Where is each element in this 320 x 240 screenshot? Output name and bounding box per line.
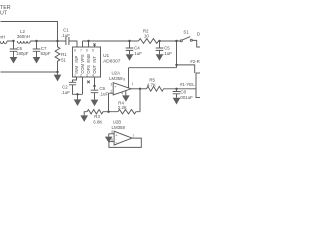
ground (U2B pin 5) [105,134,113,143]
svg-text:4: 4 [92,73,94,77]
power rail to op-amps [129,65,195,73]
switch S1 [180,37,192,42]
label U2A [109,71,123,82]
svg-text:+: + [114,84,117,89]
op-amp U2B [114,131,132,145]
svg-text:1: 1 [132,82,134,86]
ground (R1) [54,72,62,81]
svg-text:2.2K: 2.2K [118,105,127,110]
svg-text:C2: C2 [62,84,68,89]
label #2 wire [190,59,200,64]
junction dot (feedback tap) [139,88,141,90]
svg-text:0nH: 0nH [0,34,5,39]
label C4 [133,46,142,57]
svg-text:S1: S1 [183,29,189,34]
junction dot (feedback node) [107,111,109,113]
svg-text:C1: C1 [63,28,69,33]
pin 4 stub (OUT) [94,77,96,86]
label U1 [103,53,121,65]
svg-text:3: 3 [111,82,113,86]
label #1 wire [180,82,195,87]
svg-text:6: 6 [86,48,88,52]
svg-text:.1uF: .1uF [61,90,70,95]
pin name OUT [92,64,97,73]
svg-text:U1: U1 [103,53,109,59]
label C1 [61,28,70,38]
pin name OFS [86,65,91,74]
node B junction dot [35,40,37,42]
svg-text:5: 5 [92,48,94,52]
pin 4 label [121,91,123,95]
pin numbers bottom row [74,73,94,77]
junction dot (OUT node) [93,85,95,87]
connector J1 (clipped at right edge) [196,73,204,98]
ground (U2A pin 4) [122,90,130,101]
capacitor C4 [126,41,134,61]
svg-text:COM: COM [80,63,85,73]
resistor R2 [139,39,159,44]
label U2B [112,120,126,131]
supply wire row (pin7 to switch) [83,40,181,42]
inductor L2 [17,41,30,43]
wire: top input rail from left edge, down to node C [1,22,58,42]
label C8 [179,89,193,100]
svg-text:C8: C8 [180,89,186,94]
pin 3 label [111,82,113,86]
label C7 [41,46,51,56]
label C6 [16,46,29,56]
svg-text:51: 51 [61,57,66,62]
svg-text:360nH: 360nH [17,34,30,39]
svg-text:#2-R: #2-R [190,59,200,64]
pin 2 label [111,90,113,94]
resistor R1 (vertical termination) [55,41,60,72]
svg-text:4.7K: 4.7K [147,83,156,88]
label R3 [93,114,102,124]
svg-text:.1uF: .1uF [163,51,172,56]
resistor R5 [147,86,197,91]
svg-text:8: 8 [74,48,76,52]
node A junction dot [12,40,14,42]
DC connector fragment (clipped at right edge) [192,31,203,47]
svg-text:C4: C4 [134,46,140,51]
svg-text:OUT: OUT [92,64,97,73]
wire: riser to op-amp supply rail [176,41,178,68]
svg-text:U2A: U2A [112,71,121,76]
label R5 [147,77,156,87]
svg-text:2: 2 [80,73,82,77]
svg-text:180pF: 180pF [16,51,29,56]
junction dot pin 6 [87,40,89,42]
wire output row [131,88,147,90]
svg-text:VPS: VPS [80,54,85,62]
wire: ground return to left edge [1,71,58,73]
ground (C7) [33,57,41,64]
pin numbers top row [74,48,94,52]
junction dot (C8 tap) [175,88,177,90]
svg-text:.1uF: .1uF [99,92,108,97]
label C5 [163,46,172,57]
capacitor C1 (series coupling) [66,37,77,47]
inductor L1 (partial, clipped at left edge) [0,41,14,44]
resistor R3 [87,110,118,114]
pin name INM [74,66,79,74]
pin 5 stub (INT) with x [93,43,95,47]
wire pin2 stub [109,92,114,94]
svg-text:C5: C5 [164,46,170,51]
junction dot on rail [175,64,177,66]
pin name ENB [86,54,91,63]
title text line 1 (clipped at left edge) [0,5,11,11]
pin 6 label [111,138,113,142]
junction dot (R1 bottom) [56,71,58,73]
pin 1 stub and capacitor C2 [69,77,83,94]
svg-text:7: 7 [133,134,135,138]
pin 2 stub to ground [74,77,83,106]
svg-text:10: 10 [144,34,149,39]
svg-text:.1uF: .1uF [133,51,142,56]
label L2 [17,29,30,39]
wire U2A V+ riser (pin 8) [128,68,130,88]
label S1 [183,29,189,34]
title text line 2 (clipped at left edge) [0,10,8,16]
capacitor C6 [10,41,18,57]
pin name COM [80,63,85,73]
label R2 [143,28,149,38]
pin 7 label [133,134,135,138]
capacitor C7 [33,41,41,57]
pin name VPS [80,54,85,62]
capacitor C8 [173,89,181,105]
capacitor C9 [91,86,99,106]
node C junction dot [56,40,58,42]
pin 1 label [132,82,134,86]
svg-text:3: 3 [86,73,88,77]
junction dot C5 [158,40,160,42]
svg-text:R3: R3 [94,114,100,119]
wire: filter row from L2 to C1 [30,40,66,42]
svg-text:AD8307: AD8307 [103,59,121,65]
X no-connect pin 3 [87,81,90,84]
svg-text:LM358: LM358 [109,76,123,81]
op-amp U1 AD8307 box [73,47,101,77]
ground (R3 left) [80,112,88,122]
capacitor C5 [156,41,164,61]
wire feedback to pin 2 [108,93,110,112]
pin name INP [74,56,79,63]
svg-text:6.8K: 6.8K [93,120,102,125]
label R4 [118,101,127,110]
wire R4 to output node [139,89,141,112]
label C2 [61,84,70,95]
svg-text:1: 1 [74,73,76,77]
wire pin 5 stub [109,133,114,135]
label C9 [99,86,108,97]
wire pin 6 feedback loop [109,138,141,147]
svg-text:#1-YEL: #1-YEL [180,82,195,87]
label R1 [61,52,67,62]
resistor R4 [118,110,140,114]
svg-text:7: 7 [80,48,82,52]
svg-text:.001uF: .001uF [179,95,193,100]
pin 8 label [123,78,125,82]
junction dot C4 [128,40,130,42]
svg-text:U2B: U2B [113,120,122,125]
svg-text:UT: UT [0,10,8,16]
svg-text:8: 8 [123,78,125,82]
svg-text:INM: INM [74,66,79,74]
pin 6 stub (ENB) [88,41,90,47]
op-amp U2A [113,83,131,96]
svg-text:OFS: OFS [86,65,91,74]
svg-text:LM358: LM358 [112,125,126,130]
junction dot supply branch [175,40,177,42]
pin name INT [92,56,97,63]
svg-text:.1uF: .1uF [61,33,70,38]
pin 5 label [111,130,113,134]
svg-text:INT: INT [92,56,97,63]
ground (C6) [10,57,18,64]
pin 7 stub (VPS) [82,41,84,47]
svg-text:82pF: 82pF [41,51,51,56]
svg-text:INP: INP [74,56,79,63]
svg-text:4: 4 [121,91,123,95]
svg-text:C9: C9 [99,86,105,91]
svg-text:ENB: ENB [86,54,91,63]
svg-text:DC: DC [197,31,200,36]
label L1 value (clipped) [0,34,5,39]
